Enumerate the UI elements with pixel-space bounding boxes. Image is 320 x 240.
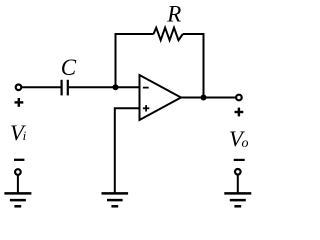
wire: feedback right vertical bbox=[203, 33, 205, 98]
terminal: input port top (open circle) bbox=[16, 85, 22, 91]
label: plus polarity at output port bbox=[235, 108, 244, 117]
op-amp non-inverting input marker (plus) bbox=[143, 105, 149, 111]
wire: output bottom terminal to ground bbox=[237, 175, 239, 194]
wire: input bottom terminal to ground bbox=[17, 175, 19, 194]
wire: non-inverting input to ground bbox=[115, 108, 140, 193]
label: plus polarity at input port bbox=[15, 98, 24, 107]
ground (left, input port) bbox=[4, 193, 31, 206]
ground (middle, non-inverting input) bbox=[102, 193, 129, 206]
op-amp U1 (triangle) bbox=[140, 75, 182, 120]
wire: feedback top left segment bbox=[115, 33, 154, 35]
terminal: input port bottom (open circle) bbox=[15, 169, 21, 175]
svg-text:C: C bbox=[61, 55, 77, 80]
ground (right, output port) bbox=[224, 193, 251, 206]
capacitor C bbox=[62, 80, 68, 96]
svg-text:i: i bbox=[23, 128, 27, 143]
wire: capacitor to op-amp inverting input bbox=[69, 86, 140, 88]
node: feedback junction at inverting input bbox=[113, 84, 119, 90]
op-amp inverting input marker (minus) bbox=[143, 87, 149, 89]
svg-text:R: R bbox=[166, 2, 181, 27]
wire: feedback top right segment bbox=[183, 33, 205, 35]
terminal: output port bottom (open circle) bbox=[235, 169, 241, 175]
wire: input terminal to capacitor bbox=[22, 86, 61, 88]
label: minus polarity at output port bbox=[234, 159, 245, 161]
terminal: output port top (open circle) bbox=[236, 95, 242, 101]
wire: feedback left vertical bbox=[115, 33, 117, 87]
resistor R bbox=[154, 28, 183, 41]
wire: op-amp output bbox=[181, 97, 236, 99]
svg-text:o: o bbox=[242, 136, 249, 151]
node: output junction bbox=[201, 95, 207, 101]
label: minus polarity at input port bbox=[14, 159, 24, 161]
